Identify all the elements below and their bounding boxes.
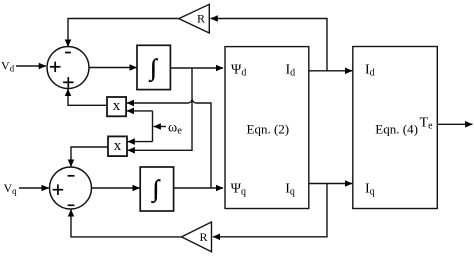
svg-text:R: R <box>200 230 208 244</box>
svg-text:∫: ∫ <box>151 176 161 203</box>
svg-text:x: x <box>113 98 121 114</box>
svg-text:x: x <box>114 138 122 154</box>
svg-text:Vq: Vq <box>4 181 18 196</box>
svg-text:Eqn. (2): Eqn. (2) <box>247 122 290 137</box>
svg-text:Vd: Vd <box>1 59 15 74</box>
svg-text:Eqn. (4): Eqn. (4) <box>375 122 418 137</box>
svg-text:R: R <box>197 12 205 26</box>
svg-text:ωe: ωe <box>168 121 182 137</box>
svg-text:∫: ∫ <box>148 55 158 82</box>
